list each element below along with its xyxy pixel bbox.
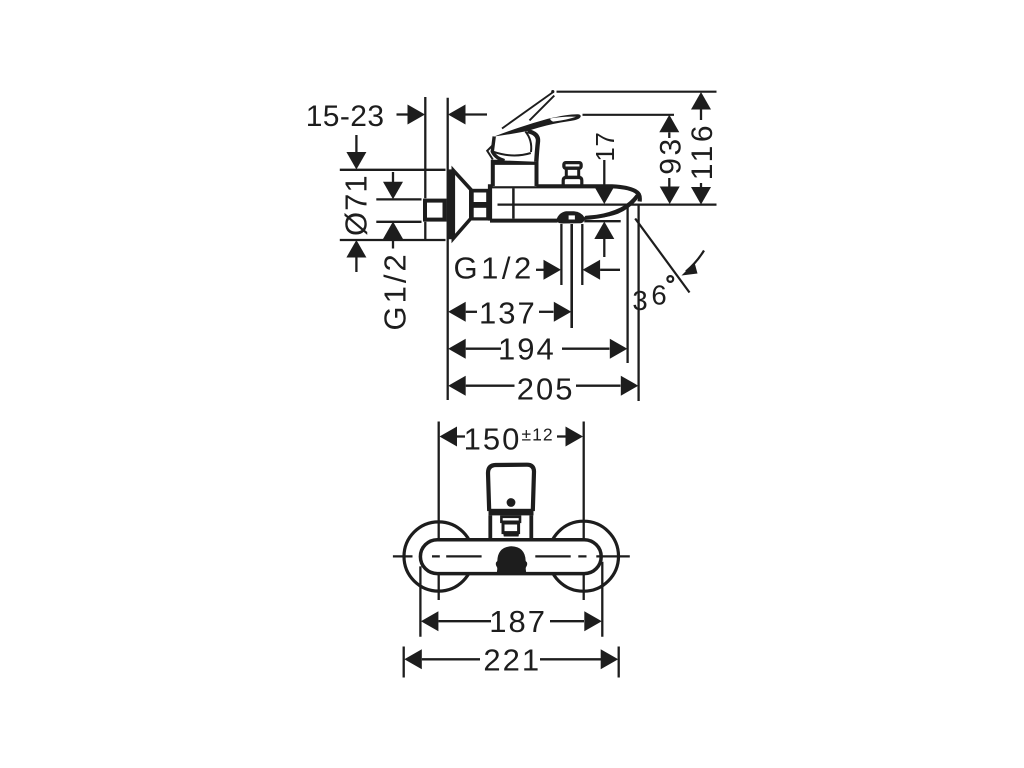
extension line aerator lower lip [584, 220, 620, 222]
extension line top of escutcheon [340, 169, 446, 171]
handle raised position thin lines [502, 93, 554, 129]
front neck collar rings [501, 517, 520, 537]
extension line 205 (spout tip) [637, 204, 639, 401]
dimension O71 vertical line with arrows [346, 135, 366, 272]
label 17 rotated [590, 132, 620, 162]
svg-text:±12: ±12 [522, 424, 554, 444]
horizontal centreline [393, 555, 630, 557]
label 194 [498, 332, 556, 367]
degree ring [667, 276, 673, 282]
dimension 137 [448, 302, 571, 322]
handle front beak [487, 145, 493, 160]
spout underside thin curve [583, 215, 610, 219]
dimension 93 vertical with arrows [659, 115, 679, 204]
dimension 17 vertical with arrows [594, 160, 614, 257]
label 205 [517, 371, 575, 406]
dimension 150 extension line left [438, 422, 440, 601]
svg-text:150: 150 [464, 421, 522, 456]
36 degree reference diagonal [635, 219, 689, 293]
label 93 rotated [655, 136, 688, 174]
spout mouth dark band [584, 194, 638, 219]
dimension 187 line and arrows [421, 611, 602, 631]
right wall rosette circle [549, 521, 619, 591]
diverter blob front view [496, 546, 527, 574]
dimension G1/2 wall-nipple vertical line with arrows [383, 172, 403, 249]
body joint line [512, 188, 515, 218]
extension line nipple top [376, 198, 421, 200]
dimension G1/2 outlet label [454, 251, 535, 286]
svg-text:187: 187 [489, 604, 547, 639]
shower outlet bump [556, 211, 584, 223]
outlet centre extension line (137 ref) [570, 224, 573, 328]
dimension 15-23 line and arrows [397, 105, 488, 125]
handle housing [493, 162, 537, 186]
dimension 221 extension lines [404, 647, 619, 678]
dimension 205 [448, 376, 638, 396]
handle neck curve [528, 131, 539, 162]
dimension 116 vertical with arrows [691, 92, 711, 205]
label 116 rotated [686, 122, 719, 180]
extension line 194 (outlet lip) [626, 207, 628, 363]
body capsule front view [420, 540, 601, 574]
extension line V2 (wall plane) [447, 98, 449, 400]
dimension 187 extension lines [420, 562, 602, 637]
svg-text:221: 221 [483, 642, 541, 677]
threaded connector [471, 189, 489, 221]
extension line bottom of escutcheon [340, 239, 446, 241]
extension line nipple bottom [376, 221, 421, 223]
mixer body outline [490, 186, 640, 220]
wall supply nipple square [425, 201, 445, 220]
dimension 15-23 label [306, 100, 385, 133]
handle body white quad [492, 131, 539, 162]
label 187 [489, 604, 547, 639]
bottom G1/2 extension lines under outlet [561, 224, 582, 285]
escutcheon cone [448, 169, 471, 239]
axis reference line [498, 204, 717, 206]
dimension 150 extension line right [583, 422, 585, 601]
label 36 degrees [632, 280, 666, 316]
dimension G1/2 outlet arrows [536, 260, 620, 280]
diverter knob side view [563, 163, 582, 186]
front handle blade [488, 465, 534, 516]
dimension 221 line and arrows [404, 649, 618, 669]
extension line handle tip (93 ref) [583, 114, 675, 116]
label 150 plus-minus 12 [464, 421, 554, 456]
label G1/2 rotated left [377, 251, 412, 330]
label 221 [483, 642, 541, 677]
label O71 rotated [339, 174, 374, 236]
handle crease lines [494, 132, 532, 156]
front handle dot [507, 498, 516, 507]
label 137 [479, 295, 537, 330]
left wall rosette circle [404, 522, 473, 591]
36 degree leader arrow [682, 251, 705, 276]
extension line handle-up top (116 ref) [551, 90, 716, 93]
dimension 150 line and arrows [440, 427, 584, 447]
extension line V1 (tile front face) [424, 97, 426, 240]
front cartridge side walls [490, 515, 531, 538]
handle lever blade [494, 114, 581, 136]
dimension 194 [448, 339, 627, 359]
